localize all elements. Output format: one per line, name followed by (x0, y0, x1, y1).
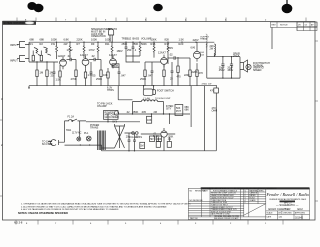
wire rectifier output (102, 133, 135, 148)
svg-text:SITY: SITY (166, 107, 172, 110)
svg-text:2. ALL RESISTORS ARE 1/2 WATT: 2. ALL RESISTORS ARE 1/2 WATT 10% 3. ALL… (21, 205, 166, 208)
svg-text:250K: 250K (133, 111, 139, 114)
capacitor C10 coupling (167, 53, 190, 60)
resistor R19 (177, 57, 179, 86)
node top bus B+ (29, 41, 214, 43)
resistor R28 470 box (210, 86, 218, 151)
svg-text:PL1: PL1 (84, 132, 89, 135)
svg-text:470K: 470K (71, 77, 77, 81)
svg-text:470Ω: 470Ω (202, 84, 208, 86)
label cluster R6 (64, 37, 70, 46)
svg-text:SCALE: SCALE (267, 211, 274, 214)
proprietary black bar (201, 187, 310, 189)
svg-text:F1 2A: F1 2A (68, 116, 75, 119)
oscillator labels left (153, 133, 159, 141)
svg-text:DATE: DATE (203, 189, 208, 192)
label cluster R7 (77, 37, 83, 46)
resistor R22 cathode 6V6 (196, 63, 204, 86)
capacitor C12 filter (227, 57, 233, 78)
svg-text:L1 4H: L1 4H (143, 97, 150, 100)
svg-text:10K: 10K (147, 119, 152, 122)
svg-text:.02: .02 (126, 111, 130, 114)
input jack J2 (10, 56, 25, 63)
AC plug P1 (42, 140, 59, 146)
title block outline (188, 188, 309, 219)
capacitor C14 (133, 133, 139, 151)
potentiometer VOLUME (96, 60, 102, 86)
svg-text:60 CY AC: 60 CY AC (42, 143, 53, 146)
svg-text:250K: 250K (133, 43, 139, 46)
svg-text:12AX7: 12AX7 (109, 53, 117, 57)
capacitor C15 osc (156, 137, 160, 147)
svg-text:68K: 68K (30, 37, 35, 41)
potentiometer 250K boxed (112, 64, 119, 68)
svg-text:117V AC: 117V AC (72, 132, 82, 135)
label cluster R2 (40, 37, 45, 46)
label cluster R1 (30, 37, 35, 46)
wire osc to rail (141, 134, 175, 151)
svg-text:250K: 250K (122, 43, 128, 46)
heater run wire (86, 114, 140, 122)
svg-text:1M: 1M (40, 71, 44, 75)
fuse F1 (65, 116, 75, 121)
parts table texts (190, 189, 265, 220)
svg-text:ECHO CHAMBER: ECHO CHAMBER (269, 207, 291, 211)
svg-text:220K: 220K (192, 70, 198, 74)
svg-text:6.8K: 6.8K (64, 37, 70, 41)
svg-text:68K: 68K (185, 108, 190, 111)
wire bottom rail (65, 145, 217, 151)
wire mid bus (118, 114, 190, 124)
tube V6 oscillator (161, 128, 167, 140)
model line (269, 207, 304, 211)
svg-text:SCHEM. NOTATION: SCHEM. NOTATION (4, 22, 26, 25)
resistor label 68K (185, 106, 190, 111)
svg-text:10K: 10K (103, 73, 108, 77)
resistor R2 diagonal (44, 47, 52, 55)
address line (270, 198, 308, 204)
svg-text:INPUT: INPUT (10, 43, 18, 47)
svg-text:.02: .02 (67, 54, 71, 58)
svg-text:420V: 420V (193, 38, 199, 42)
svg-text:.047: .047 (148, 74, 154, 78)
rectifier V7 5Y3 (113, 121, 125, 149)
svg-text:450V: 450V (227, 69, 233, 72)
tube V4 (158, 51, 167, 68)
svg-text:FOOT SWITCH: FOOT SWITCH (157, 90, 174, 93)
svg-text:R17: R17 (165, 42, 170, 46)
revision table (271, 22, 318, 31)
title block bottom rows (266, 211, 310, 220)
svg-text:250K: 250K (113, 65, 119, 68)
capacitor C13 (126, 133, 131, 151)
svg-text:.047: .047 (121, 74, 127, 78)
ground bus (28, 86, 217, 89)
wire tone stack row (126, 56, 140, 62)
capacitor C9 (171, 62, 174, 86)
svg-text:450V: 450V (219, 69, 225, 72)
svg-text:SPEED: SPEED (253, 69, 262, 72)
hole punch right (282, 0, 292, 13)
pilot lamp PL1 (77, 137, 81, 141)
resistor R1 diagonal (34, 48, 41, 56)
resistor R12 (111, 42, 113, 58)
svg-text:021642: 021642 (295, 216, 304, 219)
svg-text:R16: R16 (151, 42, 156, 46)
jack pins (129, 132, 143, 139)
chassis ground note box (104, 111, 119, 120)
svg-text:5K: 5K (150, 138, 153, 141)
capacitor C3 (90, 62, 96, 86)
resistor R24 box (140, 142, 145, 148)
capacitor C6 treble (125, 42, 132, 56)
heater labels (107, 87, 114, 92)
capacitor C5 (118, 67, 127, 86)
svg-text:170V: 170V (89, 48, 95, 52)
capacitor C8 (148, 62, 154, 86)
svg-text:R2: R2 (40, 42, 44, 46)
svg-text:JACK: JACK (233, 55, 240, 58)
svg-text:6V6: 6V6 (191, 46, 196, 50)
junction dots bus (36, 42, 196, 63)
resistor R5 cathode (56, 65, 62, 86)
svg-text:POT: POT (176, 110, 182, 113)
junction dot heater (107, 121, 108, 122)
wire OT secondary rails (207, 42, 240, 78)
capacitor C7 bass (132, 42, 137, 56)
drawing number label box (3, 21, 37, 25)
label cluster R17 (165, 37, 170, 46)
svg-text:R9: R9 (91, 42, 95, 46)
svg-text:NO.3-8: NO.3-8 (14, 221, 23, 225)
svg-text:.02: .02 (91, 54, 95, 58)
tube V3 (109, 53, 117, 68)
svg-text:12AX7: 12AX7 (158, 51, 166, 55)
capacitor C4 coupling (89, 54, 101, 61)
svg-text:250K: 250K (96, 77, 102, 81)
svg-text:R20: R20 (179, 42, 184, 46)
svg-text:Fender / Russell / Radio: Fender / Russell / Radio (265, 192, 309, 197)
svg-text:NO REVISIONS: NO REVISIONS (190, 200, 204, 202)
capacitor C11 filter (219, 57, 225, 78)
svg-text:2M: 2M (154, 111, 157, 114)
component box R25 (175, 105, 183, 116)
mid bus labels (126, 111, 157, 114)
svg-text:OPERATION: OPERATION (91, 35, 106, 38)
resistor R16 (153, 42, 155, 57)
capacitor C16 osc (167, 137, 171, 147)
footswitch note text (253, 62, 270, 72)
resistor R10 cathode V2 (84, 69, 93, 86)
label cluster 22K (210, 45, 215, 50)
tube V2 (80, 53, 89, 68)
note text to pin jack (97, 103, 113, 108)
capacitor C1 (51, 62, 56, 86)
parts table horizontals (210, 191, 266, 193)
svg-text:NOTICE: NOTICE (280, 25, 288, 27)
wire right risers (191, 86, 204, 151)
label intensity (166, 105, 174, 110)
tone stack labels (122, 38, 152, 46)
svg-text:REV: REV (272, 25, 277, 27)
svg-text:OHM: OHM (212, 109, 218, 112)
Fender script logo (265, 192, 309, 197)
svg-text:470: 470 (210, 90, 215, 93)
label cluster R9 (91, 37, 97, 46)
svg-text:NOTES: UNLESS OTHERWISE SPECIF: NOTES: UNLESS OTHERWISE SPECIFIED (18, 212, 68, 215)
inductor L1 (133, 97, 164, 114)
pilot lamp PL2 (84, 132, 91, 141)
NFB label (212, 107, 218, 112)
svg-text:5Y3: 5Y3 (113, 121, 118, 124)
wire coil feed (118, 86, 132, 100)
svg-text:100K: 100K (51, 37, 57, 41)
resistor R3a box (32, 51, 34, 61)
svg-text:180V: 180V (117, 49, 123, 53)
svg-text:220K: 220K (77, 37, 83, 41)
footswitch connector JP (106, 27, 117, 42)
resistor R4 1M (46, 62, 53, 86)
resistor R17 (167, 42, 169, 64)
junction dots mid bus (132, 113, 170, 114)
resistor R8 470K (71, 60, 78, 86)
svg-text:.005: .005 (141, 111, 146, 114)
svg-text:TREBLE: TREBLE (122, 38, 132, 41)
resistor R13 (103, 68, 109, 86)
resistor R27 box (157, 136, 162, 142)
footswitch jack J2 (143, 85, 174, 100)
svg-text:GROUNDED: GROUNDED (105, 116, 119, 119)
resistor R26 box (150, 136, 155, 142)
resistor R3 1M (36, 62, 43, 86)
resistor R9 plate V2 (83, 42, 85, 58)
svg-text:TRANS: TRANS (90, 126, 99, 129)
junction dots power rail (80, 144, 136, 151)
tube V5 6V6 (191, 46, 205, 62)
resistor R7 (69, 42, 71, 59)
wire oval drop (132, 102, 134, 115)
label cluster R20 (179, 37, 185, 46)
wire from revision table down (271, 27, 273, 49)
svg-text:R11: R11 (105, 42, 110, 46)
svg-text:250K: 250K (140, 77, 146, 81)
diagonal void line (244, 204, 266, 216)
tube V1 12AX7 (58, 54, 67, 69)
label cluster OT (193, 38, 199, 42)
wire AC primary (59, 121, 87, 142)
oscillator labels right (168, 136, 174, 141)
svg-text:ON AMP: ON AMP (97, 105, 107, 108)
svg-text:2: 2 (245, 202, 246, 204)
resistor R6 100K plate (56, 42, 58, 59)
svg-text:R7: R7 (77, 42, 81, 46)
svg-text:100K: 100K (151, 37, 157, 41)
parts table verticals (201, 189, 203, 217)
svg-text:HTRS: HTRS (107, 89, 114, 92)
svg-text:CHECKED: CHECKED (283, 212, 292, 214)
label cluster bus end (202, 84, 213, 86)
note text block speaker plug (91, 28, 110, 38)
svg-text:500K: 500K (141, 43, 147, 46)
svg-text:DATE: DATE (267, 216, 272, 219)
resistor R23 box (147, 116, 152, 123)
resistor R14 slope (139, 42, 141, 56)
wire jacks to grid node (25, 42, 58, 62)
resistor R21 (189, 58, 198, 86)
switch SW1 (66, 119, 82, 134)
hole punch left (27, 2, 43, 12)
svg-text:R1: R1 (30, 42, 34, 46)
svg-text:12AX7: 12AX7 (58, 54, 66, 58)
svg-text:GLASS: GLASS (250, 199, 257, 202)
junction dots secondary (222, 56, 232, 79)
output transformer T2 (200, 34, 215, 57)
svg-text:EC2: EC2 (298, 207, 304, 211)
label cluster R16 (151, 37, 157, 46)
power transformer T1 (90, 124, 105, 150)
svg-text:1. OPERATING VOLTAGES SHOWN ON: 1. OPERATING VOLTAGES SHOWN ON DIAGRAM A… (21, 203, 191, 206)
label cluster R5 (51, 37, 57, 46)
resistor R18 tail (163, 64, 165, 85)
input jack J1 (10, 42, 25, 48)
svg-text:SPEC: SPEC (259, 190, 265, 192)
resistor R15 (140, 62, 146, 86)
svg-text:4-64: 4-64 (279, 217, 283, 219)
hole punch center (153, 4, 163, 12)
label cluster tail (170, 74, 190, 81)
svg-text:68K: 68K (40, 37, 45, 41)
svg-text:TRANS: TRANS (200, 38, 208, 41)
svg-text:SEE ENGR ORDER FOR APP: SEE ENGR ORDER FOR APP (214, 217, 239, 220)
svg-text:1.5K: 1.5K (179, 37, 185, 41)
resistor R4a box (40, 51, 42, 61)
resistor R11 (97, 42, 99, 59)
wire to phase inverter grid (145, 61, 161, 63)
capacitor C2 coupling (67, 54, 77, 61)
svg-text:100K: 100K (105, 37, 111, 41)
svg-text:1W: 1W (51, 42, 55, 46)
svg-text:470: 470 (177, 76, 182, 79)
svg-text:1M: 1M (140, 145, 143, 148)
svg-text:470: 470 (199, 71, 204, 75)
label cluster R11 (105, 37, 111, 46)
svg-text:4. ALL VOLTAGES ARE PLUS OR MI: 4. ALL VOLTAGES ARE PLUS OR MINUS 20 PER… (21, 208, 119, 211)
svg-text:2W: 2W (64, 42, 68, 46)
svg-text:10K: 10K (157, 138, 162, 141)
svg-text:PART NO: PART NO (190, 217, 198, 220)
svg-text:APPROVED: APPROVED (295, 211, 306, 214)
svg-text:82K: 82K (165, 37, 170, 41)
svg-text:.02: .02 (169, 53, 173, 57)
svg-text:250: 250 (127, 48, 132, 52)
svg-text:BASS: BASS (133, 38, 140, 41)
wire plate 6V6 to OT (196, 42, 198, 51)
svg-text:INPUT: INPUT (10, 59, 18, 63)
svg-text:CAPACITORS ELECT 450V: CAPACITORS ELECT 450V (211, 196, 234, 199)
speaker SP1 (233, 53, 251, 73)
svg-text:— SCHEMATIC —: — SCHEMATIC — (276, 203, 299, 207)
svg-text:TO ECHO UNIT: TO ECHO UNIT (155, 98, 171, 100)
svg-text:1.5K: 1.5K (56, 78, 62, 82)
